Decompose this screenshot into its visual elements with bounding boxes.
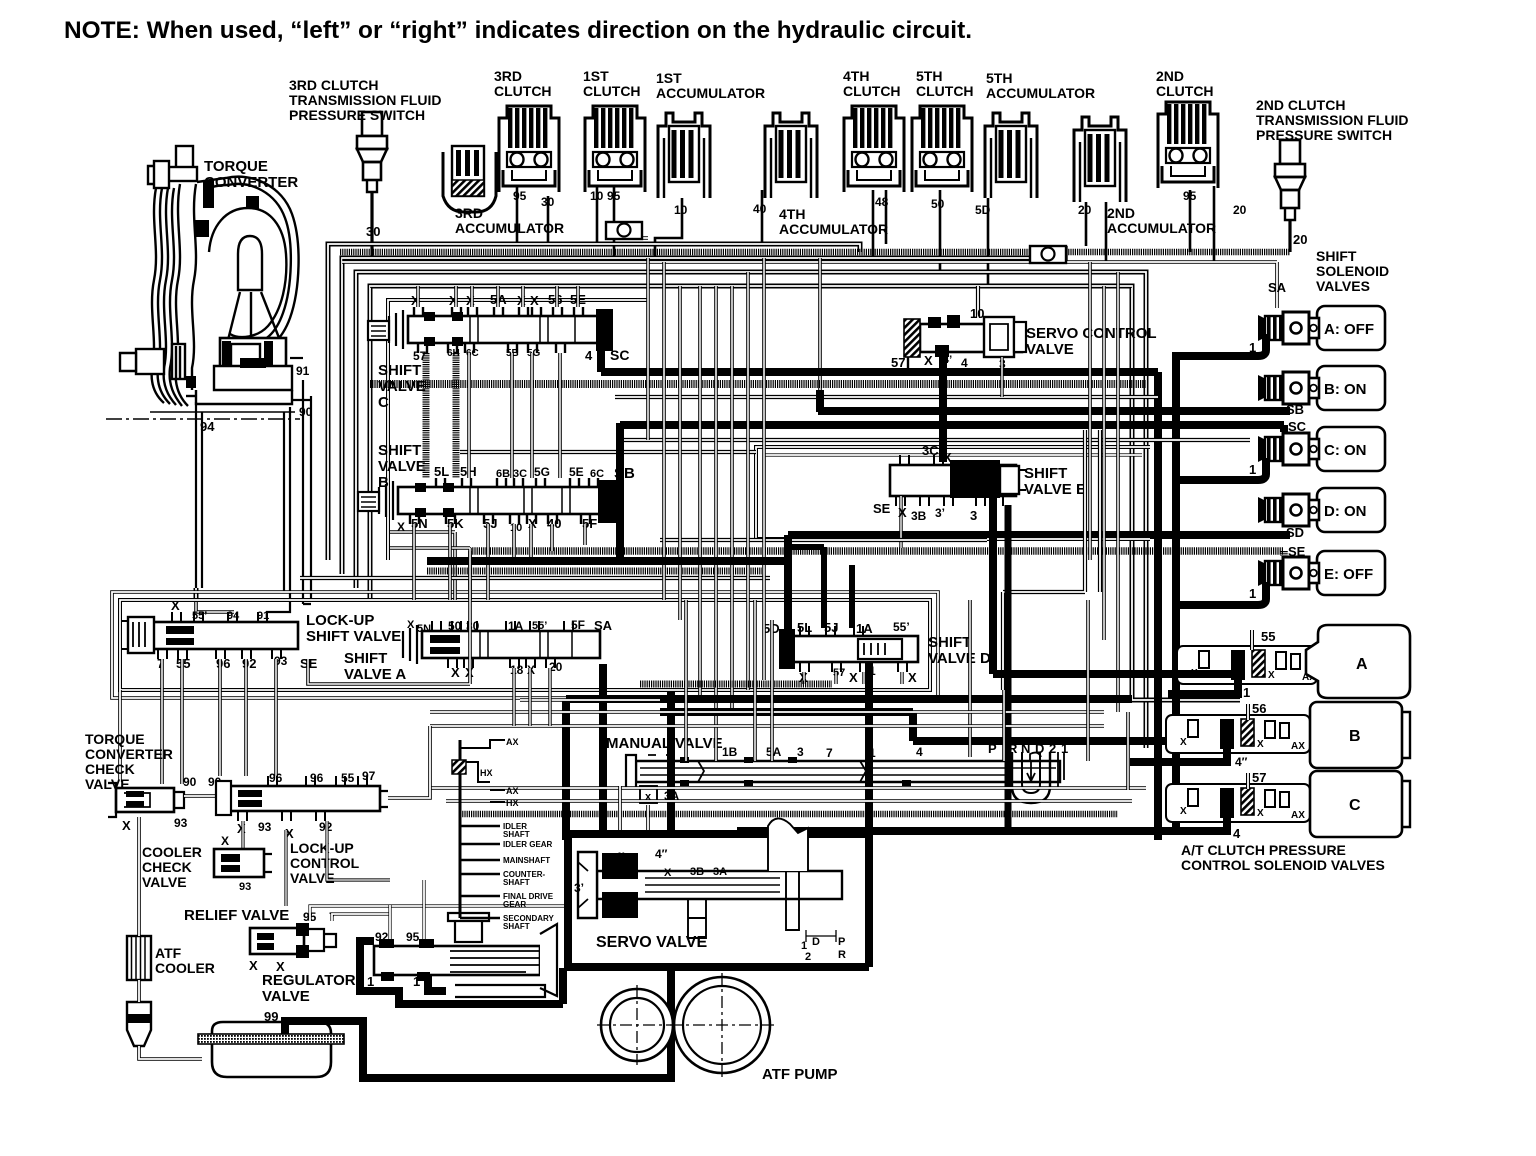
svg-text:10: 10 bbox=[970, 306, 984, 321]
shift valve A bottom ports bbox=[448, 658, 457, 668]
svg-text:X: X bbox=[451, 665, 460, 680]
wire SE drop from valve E bbox=[899, 496, 902, 548]
svg-text:3C: 3C bbox=[922, 443, 939, 458]
svg-text:SA: SA bbox=[594, 618, 613, 633]
stipple rail y684 bbox=[640, 681, 832, 688]
svg-text:93: 93 bbox=[258, 820, 272, 834]
drops below lock-up control valve bbox=[241, 821, 244, 849]
heavy rail y699 bbox=[566, 695, 1132, 703]
svg-text:VALVE: VALVE bbox=[142, 874, 187, 890]
pressure control unit C bbox=[1166, 784, 1310, 822]
rail y578 bbox=[300, 576, 770, 580]
svg-text:CHECK: CHECK bbox=[142, 859, 192, 875]
heavy vertical x620 SB bbox=[616, 423, 624, 561]
pipe drops shift valve C to B bbox=[423, 353, 430, 478]
pipe x686 down to manual valve bbox=[684, 600, 688, 761]
svg-text:X: X bbox=[1268, 670, 1275, 681]
svg-text:4TH: 4TH bbox=[843, 68, 869, 84]
pipes under manual valve bbox=[620, 786, 648, 838]
heavy wire solenoid C feed bbox=[1176, 458, 1266, 480]
pipe drops shift valve B down bbox=[412, 524, 416, 600]
svg-text:91: 91 bbox=[257, 610, 269, 622]
svg-text:7: 7 bbox=[826, 746, 833, 760]
svg-text:3’: 3’ bbox=[935, 506, 945, 520]
svg-text:VALVE D: VALVE D bbox=[928, 650, 991, 667]
svg-text:SERVO VALVE: SERVO VALVE bbox=[596, 934, 707, 951]
pipe 92 95 into regulator bbox=[388, 905, 391, 939]
svg-text:4TH: 4TH bbox=[779, 206, 805, 222]
svg-text:18: 18 bbox=[510, 663, 524, 677]
svg-text:93: 93 bbox=[174, 816, 188, 830]
svg-text:1: 1 bbox=[413, 974, 420, 989]
svg-text:40: 40 bbox=[753, 202, 767, 216]
pipe x120 left edge down bbox=[118, 690, 122, 782]
svg-text:SHAFT: SHAFT bbox=[503, 830, 530, 839]
svg-text:C: C bbox=[1349, 797, 1361, 814]
3rd clutch (component) bbox=[499, 106, 559, 192]
vertical feed line x460 bbox=[459, 740, 462, 918]
svg-text:AX: AX bbox=[506, 737, 519, 747]
svg-text:SHIFT: SHIFT bbox=[1316, 248, 1357, 264]
svg-text:40: 40 bbox=[547, 516, 561, 531]
svg-text:57: 57 bbox=[891, 355, 905, 370]
heavy vertical from SC cap bbox=[597, 351, 605, 372]
regulator valve housing bbox=[448, 913, 557, 997]
svg-text:PRESSURE SWITCH: PRESSURE SWITCH bbox=[289, 107, 425, 123]
pipe 94 from tank down to lock-up shift valve bbox=[196, 588, 234, 612]
pipe strainer to pan bbox=[139, 1046, 202, 1059]
svg-text:TORQUE: TORQUE bbox=[85, 731, 145, 747]
shift solenoid valve C: ON box bbox=[1317, 427, 1385, 471]
1st clutch (component) bbox=[585, 106, 645, 192]
svg-text:6B: 6B bbox=[496, 468, 510, 480]
lock-up valves enclosure outer box bbox=[112, 592, 938, 698]
svg-text:VALVE E: VALVE E bbox=[1024, 481, 1086, 498]
shift valve E black section bbox=[950, 460, 1000, 498]
shift valve B end cap SB (black) bbox=[598, 480, 617, 523]
svg-text:4: 4 bbox=[916, 745, 923, 759]
svg-text:30: 30 bbox=[366, 224, 380, 239]
svg-text:90: 90 bbox=[183, 775, 197, 789]
svg-text:PRESSURE SWITCH: PRESSURE SWITCH bbox=[1256, 127, 1392, 143]
heavy wire SC y425 bbox=[620, 425, 1284, 432]
heavy vertical x869 bbox=[865, 661, 873, 838]
svg-text:SHIFT: SHIFT bbox=[928, 634, 971, 651]
svg-text:X: X bbox=[407, 619, 415, 631]
shift valve D top ports bbox=[800, 626, 809, 636]
1st accumulator (component) bbox=[658, 113, 710, 198]
shift solenoid valve B: ON box bbox=[1317, 366, 1385, 410]
svg-text:C: ON: C: ON bbox=[1324, 442, 1367, 459]
pipes from shift valve A bottom to rails bbox=[512, 668, 515, 726]
svg-text:4″: 4″ bbox=[1235, 755, 1248, 769]
svg-text:CONTROL SOLENOID VALVES: CONTROL SOLENOID VALVES bbox=[1181, 857, 1385, 873]
lock-up valves enclosure box bbox=[120, 600, 930, 690]
svg-text:3A: 3A bbox=[713, 866, 727, 878]
4th accumulator (component) bbox=[765, 113, 817, 198]
heavy bus vertical x1176 bbox=[1172, 352, 1180, 834]
svg-text:SE: SE bbox=[1288, 544, 1306, 559]
heavy rail y831 bbox=[737, 827, 1227, 835]
svg-text:X: X bbox=[1257, 739, 1264, 750]
svg-text:X: X bbox=[908, 670, 917, 685]
svg-text:CLUTCH: CLUTCH bbox=[1156, 83, 1214, 99]
svg-text:SHAFT: SHAFT bbox=[503, 878, 530, 887]
svg-text:CLUTCH: CLUTCH bbox=[843, 83, 901, 99]
svg-text:A/T CLUTCH PRESSURE: A/T CLUTCH PRESSURE bbox=[1181, 842, 1346, 858]
svg-text:95: 95 bbox=[513, 189, 527, 203]
svg-text:94: 94 bbox=[227, 610, 240, 622]
heavy vertical x603 bbox=[599, 664, 607, 838]
svg-text:99: 99 bbox=[264, 1009, 278, 1024]
svg-text:ATF PUMP: ATF PUMP bbox=[762, 1066, 838, 1083]
shift valve D black left cap bbox=[779, 629, 795, 669]
shaft feeds small text bbox=[460, 825, 500, 828]
rail y440 bbox=[620, 438, 1250, 442]
manual valve spool body bbox=[636, 761, 1060, 782]
shift valve C top ports bbox=[414, 307, 423, 317]
shift valve C bottom ports bbox=[418, 343, 427, 353]
svg-text:2ND: 2ND bbox=[1156, 68, 1184, 84]
heavy wire 99 pan to pump loop bbox=[281, 964, 671, 1078]
svg-text:5A: 5A bbox=[766, 745, 782, 759]
shift valve C end cap SC (black) bbox=[596, 309, 613, 351]
svg-text:6C: 6C bbox=[590, 468, 604, 480]
pressure control valve A box bbox=[1306, 625, 1410, 698]
svg-text:1A: 1A bbox=[508, 619, 524, 633]
heavy wire solenoid E feed bbox=[1176, 582, 1266, 605]
svg-text:IDLER GEAR: IDLER GEAR bbox=[503, 840, 553, 849]
svg-text:4: 4 bbox=[585, 348, 593, 363]
svg-text:2ND CLUTCH: 2ND CLUTCH bbox=[1256, 97, 1345, 113]
heavy vertical x1008 valve E down bbox=[1005, 505, 1012, 831]
svg-text:2ND: 2ND bbox=[1107, 205, 1135, 221]
pipe from lockup control to manual rails bbox=[388, 726, 430, 798]
svg-text:NOTE: When used, “left” or “ri: NOTE: When used, “left” or “right” indic… bbox=[64, 17, 972, 44]
svg-text:P: P bbox=[838, 936, 845, 948]
svg-text:VALVES: VALVES bbox=[1316, 278, 1370, 294]
svg-text:3RD CLUTCH: 3RD CLUTCH bbox=[289, 77, 378, 93]
svg-text:TRANSMISSION FLUID: TRANSMISSION FLUID bbox=[289, 92, 441, 108]
svg-text:REGULATOR: REGULATOR bbox=[262, 972, 356, 989]
regulator valve spool body bbox=[374, 946, 540, 975]
svg-text:4’: 4’ bbox=[615, 850, 625, 864]
svg-text:1ST: 1ST bbox=[583, 68, 609, 84]
svg-text:20: 20 bbox=[1233, 203, 1247, 217]
svg-text:X: X bbox=[664, 867, 672, 879]
pipe 90-90 check valve to lockup control valve bbox=[184, 794, 216, 797]
manual valve detent bbox=[1030, 753, 1041, 761]
rail y262 to SA solenoid bbox=[342, 262, 1277, 308]
heavy vertical x671 bbox=[667, 692, 675, 838]
shift valve A inner ticks bbox=[480, 632, 572, 657]
shift valve D bottom ports bbox=[800, 662, 809, 672]
svg-text:CONTROL: CONTROL bbox=[290, 855, 360, 871]
svg-text:CHECK: CHECK bbox=[85, 761, 135, 777]
stipple rail y384 bbox=[370, 380, 1146, 388]
rails below manual valve bbox=[430, 786, 1146, 790]
shift valve C spring end bbox=[389, 310, 403, 349]
svg-text:5N: 5N bbox=[417, 623, 431, 635]
3rd accumulator (component) bbox=[443, 152, 496, 212]
shift valve A spool body bbox=[422, 631, 600, 658]
svg-text:D: D bbox=[812, 936, 820, 948]
servo valve spool internal lines bbox=[645, 878, 780, 892]
pipe check valve to cooler bbox=[137, 817, 141, 936]
svg-text:3RD: 3RD bbox=[494, 68, 522, 84]
outer frame line 3 bbox=[356, 272, 1146, 748]
inline fitting near 2nd accumulator bbox=[1030, 246, 1066, 263]
lock-up control valve spool body bbox=[228, 786, 380, 811]
svg-text:5F: 5F bbox=[571, 618, 585, 632]
svg-text:1B: 1B bbox=[722, 745, 738, 759]
svg-text:55: 55 bbox=[341, 771, 355, 785]
heavy drop 5D x788 bbox=[784, 535, 792, 630]
oil pan (component) bbox=[212, 1022, 331, 1077]
svg-text:VALVE: VALVE bbox=[262, 988, 310, 1005]
pipes x755 manual valve to top bbox=[753, 600, 757, 761]
svg-text:X: X bbox=[171, 598, 180, 613]
pipe 90 down right side of tank bbox=[303, 380, 311, 604]
servo valve lower stub bbox=[688, 899, 706, 938]
pipe drops valve D bottom ports bbox=[802, 672, 805, 684]
heavy vertical x943 servo control to valve E bbox=[939, 357, 947, 462]
ATF pump small gear circle bbox=[601, 989, 673, 1061]
manual valve X 3A stub bbox=[640, 786, 657, 803]
svg-text:4″: 4″ bbox=[655, 847, 668, 861]
lock-up control valve ports bbox=[268, 776, 277, 786]
svg-text:10: 10 bbox=[510, 522, 522, 534]
heavy wire from unit C black down bbox=[1130, 817, 1231, 831]
short rail y548 bbox=[390, 548, 470, 600]
stipple rail y571 bbox=[427, 568, 762, 575]
pressure control valve B box bbox=[1310, 702, 1402, 768]
pipe 4th accumulator drop x820 bbox=[818, 258, 822, 408]
shift valve A spring end bbox=[403, 625, 417, 664]
svg-text:CONVERTER: CONVERTER bbox=[85, 746, 173, 762]
manual valve internal lines bbox=[640, 768, 1056, 775]
vertical pair x970 above manual valve bbox=[968, 600, 972, 757]
svg-text:93: 93 bbox=[239, 881, 251, 893]
torque converter (component) bbox=[120, 146, 299, 406]
pressure control unit B bbox=[1166, 715, 1310, 753]
svg-text:RELIEF VALVE: RELIEF VALVE bbox=[184, 907, 289, 924]
wire 55 into unit A bbox=[1250, 630, 1254, 650]
shift valve B inner ticks bbox=[470, 488, 570, 513]
svg-text:A: OFF: A: OFF bbox=[1324, 321, 1374, 338]
shift solenoid valve A: OFF box bbox=[1317, 306, 1385, 350]
heavy wire SD y535 bbox=[788, 531, 1290, 539]
heavy wire from unit B black down bbox=[1130, 748, 1231, 762]
inline fitting near 1st accumulator bbox=[606, 222, 642, 239]
svg-text:1: 1 bbox=[1243, 685, 1250, 700]
svg-text:SA: SA bbox=[1268, 280, 1287, 295]
short rail y532 bbox=[390, 532, 455, 600]
shaft feed stub AX2 bbox=[490, 789, 505, 791]
shift solenoid valve B: ON solenoid symbol bbox=[1258, 372, 1319, 404]
svg-text:56: 56 bbox=[1252, 701, 1266, 716]
4th clutch (component) bbox=[844, 106, 904, 192]
svg-text:55: 55 bbox=[1261, 629, 1275, 644]
svg-text:X: X bbox=[122, 818, 131, 833]
svg-text:MAINSHAFT: MAINSHAFT bbox=[503, 856, 550, 865]
servo valve spool body bbox=[597, 871, 842, 899]
outer frame line 4 bbox=[370, 286, 1240, 700]
lock-up shift valve spool body bbox=[152, 622, 298, 649]
drop servo control 57 bbox=[907, 357, 909, 371]
svg-text:GEAR: GEAR bbox=[503, 900, 526, 909]
shift valve E bottom ports bbox=[896, 496, 905, 506]
svg-text:VALVE: VALVE bbox=[378, 458, 426, 475]
servo control valve hatched end bbox=[904, 319, 920, 357]
svg-text:VALVE: VALVE bbox=[1026, 341, 1074, 358]
drop servo control 3 bbox=[1000, 357, 1003, 397]
vertical pipes x1090-1118 bbox=[1088, 262, 1092, 560]
3rd clutch transmission fluid pressure switch (component) bbox=[357, 112, 387, 192]
svg-text:5E: 5E bbox=[569, 465, 584, 479]
pressure control valve C box bbox=[1310, 771, 1402, 837]
svg-text:CLUTCH: CLUTCH bbox=[916, 83, 974, 99]
svg-text:ATF: ATF bbox=[155, 945, 182, 961]
pipes from lockup valve ports down bbox=[160, 659, 164, 784]
rail y397 bbox=[615, 395, 1158, 399]
svg-text:3: 3 bbox=[797, 745, 804, 759]
heavy vertical x566 bbox=[562, 699, 570, 840]
svg-text:HX: HX bbox=[480, 768, 493, 778]
heavy wire SB y411 bbox=[818, 407, 1290, 415]
ATF cooler (component) bbox=[127, 936, 151, 980]
svg-text:SC: SC bbox=[1288, 419, 1307, 434]
wire 91 from torque converter bbox=[290, 357, 303, 359]
svg-text:5L: 5L bbox=[797, 620, 812, 635]
wire 56 into unit B bbox=[1246, 704, 1250, 720]
svg-text:A: A bbox=[1356, 656, 1368, 673]
2nd clutch transmission fluid pressure switch (component) bbox=[1275, 140, 1305, 220]
shift valve E top ports bbox=[900, 455, 909, 465]
svg-text:SHAFT: SHAFT bbox=[503, 922, 530, 931]
heavy bus vertical x1158 bbox=[1154, 372, 1162, 840]
svg-text:96: 96 bbox=[216, 656, 230, 671]
svg-text:MANUAL VALVE: MANUAL VALVE bbox=[606, 735, 723, 752]
svg-text:3: 3 bbox=[970, 508, 977, 523]
svg-text:3C: 3C bbox=[513, 468, 527, 480]
pipe drops above shift valve C bbox=[416, 286, 420, 307]
heavy rail y561 bbox=[427, 557, 788, 565]
shift valve A top ports bbox=[432, 621, 441, 631]
svg-text:96: 96 bbox=[269, 771, 283, 785]
inner box frame around shift valve C/B bbox=[388, 300, 648, 560]
rail y540 bbox=[660, 538, 987, 542]
shift solenoid valve D: ON box bbox=[1317, 488, 1385, 532]
svg-text:91: 91 bbox=[296, 364, 310, 378]
svg-text:D: ON: D: ON bbox=[1324, 503, 1367, 520]
svg-text:97: 97 bbox=[362, 769, 376, 783]
svg-text:E: OFF: E: OFF bbox=[1324, 566, 1373, 583]
rail x1100 vertical bbox=[1098, 430, 1102, 592]
servo valve black pistons bbox=[602, 853, 638, 879]
shift valve C inner ticks bbox=[470, 317, 575, 343]
svg-text:55’: 55’ bbox=[893, 620, 910, 634]
shift valve B top ports bbox=[436, 478, 445, 488]
cooler check valve (component) bbox=[214, 849, 264, 877]
svg-text:CONVERTER: CONVERTER bbox=[204, 174, 298, 191]
ATF pump large gear circle bbox=[674, 977, 770, 1073]
regulator valve internals bbox=[379, 939, 434, 981]
svg-text:SHIFT: SHIFT bbox=[378, 362, 421, 379]
svg-text:4: 4 bbox=[961, 356, 968, 370]
wire 57 into unit C bbox=[1246, 773, 1250, 789]
svg-text:B: ON: B: ON bbox=[1324, 381, 1367, 398]
svg-text:2: 2 bbox=[805, 951, 811, 963]
servo control valve feed 10 bbox=[976, 286, 980, 318]
svg-text:SHIFT: SHIFT bbox=[378, 442, 421, 459]
2nd accumulator (component) bbox=[1074, 117, 1126, 202]
svg-text:X: X bbox=[1257, 808, 1264, 819]
rail y286 long bbox=[370, 284, 1132, 288]
heavy rail y412 segment bbox=[816, 390, 824, 412]
svg-text:1: 1 bbox=[1249, 462, 1256, 477]
svg-text:X: X bbox=[1180, 806, 1187, 817]
shift valve C spool body bbox=[408, 316, 598, 343]
svg-text:55’: 55’ bbox=[192, 610, 207, 622]
svg-text:5TH: 5TH bbox=[986, 70, 1012, 86]
5th clutch (component) bbox=[912, 106, 972, 192]
shift solenoid valve A: OFF solenoid symbol bbox=[1258, 312, 1319, 344]
svg-text:AX: AX bbox=[506, 786, 519, 796]
svg-text:3B: 3B bbox=[690, 866, 704, 878]
svg-text:AX: AX bbox=[1291, 810, 1305, 821]
torque converter feed tank 94 bbox=[196, 402, 290, 592]
heavy wire SC/SB vertical turn x1158 bbox=[601, 368, 1158, 376]
regulator valve heavy frame bbox=[360, 941, 446, 1004]
shift valve E enclosure bbox=[756, 447, 1150, 539]
svg-text:50: 50 bbox=[448, 619, 462, 633]
shift valve E spool body bbox=[890, 465, 1016, 496]
svg-text:4: 4 bbox=[1233, 826, 1241, 841]
svg-text:X: X bbox=[924, 353, 933, 368]
wire SE from lockup to stipple rail bbox=[308, 551, 470, 684]
servo valve heavy enclosure bbox=[564, 827, 869, 967]
svg-text:X: X bbox=[221, 834, 229, 848]
hatched box above feeds bbox=[452, 760, 466, 774]
svg-text:5L: 5L bbox=[434, 464, 449, 479]
svg-text:30: 30 bbox=[466, 619, 480, 633]
svg-text:50: 50 bbox=[931, 197, 945, 211]
pipes x1000-1130 manual area verticals bbox=[1002, 690, 1006, 761]
shift solenoid valve D: ON solenoid symbol bbox=[1258, 494, 1319, 526]
svg-text:X: X bbox=[530, 293, 539, 308]
lock-up shift valve top ports bbox=[172, 612, 181, 622]
RND21 hook tube bbox=[1012, 752, 1050, 803]
svg-text:ACCUMULATOR: ACCUMULATOR bbox=[656, 85, 765, 101]
heavy corner y712 bbox=[660, 708, 913, 716]
svg-text:B: B bbox=[1349, 728, 1361, 745]
shaft feed stub HX2 bbox=[490, 801, 505, 803]
rails above manual valve bbox=[430, 724, 1104, 728]
svg-text:1: 1 bbox=[1249, 586, 1256, 601]
heavy drops valve D ports bbox=[790, 547, 824, 628]
svg-text:SHIFT VALVE: SHIFT VALVE bbox=[306, 628, 401, 645]
svg-text:TORQUE: TORQUE bbox=[204, 158, 268, 175]
lock-up shift valve bottom ports bbox=[158, 649, 167, 659]
shift valve B spring end bbox=[379, 481, 393, 520]
svg-text:C: C bbox=[378, 394, 389, 411]
wire 90 from torque converter bbox=[292, 399, 311, 401]
svg-text:ACCUMULATOR: ACCUMULATOR bbox=[986, 85, 1095, 101]
servo valve fork top bbox=[768, 818, 808, 871]
svg-text:R: R bbox=[838, 949, 846, 961]
rail y452-460 bbox=[460, 450, 756, 454]
